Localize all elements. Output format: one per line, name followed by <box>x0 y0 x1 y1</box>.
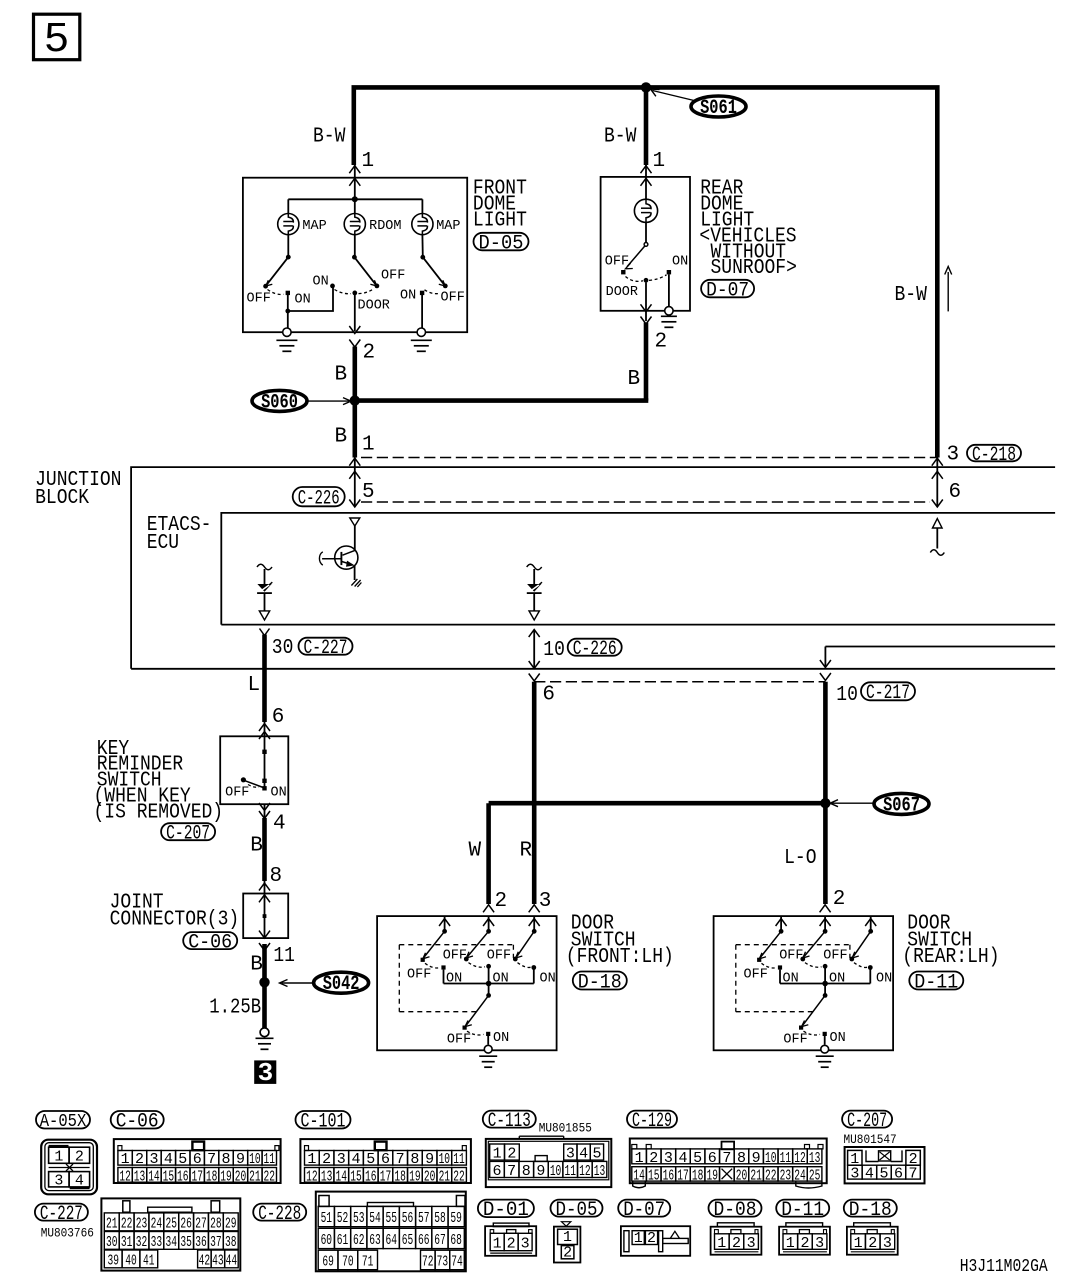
svg-text:22: 22 <box>121 1215 133 1232</box>
connector label C-217 <box>861 682 915 700</box>
svg-text:18: 18 <box>692 1167 704 1184</box>
svg-text:C-207: C-207 <box>847 1110 887 1133</box>
svg-text:21: 21 <box>106 1215 118 1232</box>
svg-text:51: 51 <box>321 1210 333 1227</box>
svg-text:W: W <box>469 839 482 862</box>
svg-text:3: 3 <box>883 1235 892 1252</box>
pin1 arrows <box>349 458 360 466</box>
svg-text:C-217: C-217 <box>866 682 910 705</box>
svg-text:11: 11 <box>564 1163 576 1180</box>
svg-text:D-18: D-18 <box>849 1199 892 1222</box>
svg-text:(IS REMOVED): (IS REMOVED) <box>94 801 224 824</box>
pin 1 entry arrows rear dome <box>641 166 652 174</box>
svg-text:D-07: D-07 <box>623 1199 665 1222</box>
svg-text:A-05X: A-05X <box>40 1112 87 1132</box>
ETACS input left hollow arrow <box>350 518 360 526</box>
svg-text:2: 2 <box>507 1145 516 1162</box>
svg-text:72: 72 <box>422 1253 434 1270</box>
svg-text:1: 1 <box>786 1235 795 1252</box>
svg-text:1: 1 <box>854 1235 863 1252</box>
svg-text:3: 3 <box>815 1235 824 1252</box>
svg-text:4: 4 <box>579 1145 588 1162</box>
svg-text:ON: ON <box>830 1030 846 1046</box>
splice S061 <box>691 96 746 117</box>
svg-text:OFF: OFF <box>247 291 271 307</box>
key switch contacts <box>264 736 266 789</box>
svg-text:MU803766: MU803766 <box>41 1225 94 1240</box>
svg-text:17: 17 <box>677 1167 689 1184</box>
ground ref 3 black box <box>254 1060 276 1084</box>
switch B D-18 <box>468 931 489 956</box>
svg-text:42: 42 <box>199 1252 211 1269</box>
ground left front dome <box>283 328 291 336</box>
splice S042 <box>314 972 369 993</box>
svg-text:DOOR: DOOR <box>358 298 391 314</box>
pin 2 exit rear dome <box>645 283 647 321</box>
svg-text:70: 70 <box>342 1253 354 1270</box>
connector C-113 <box>486 1139 612 1187</box>
svg-text:9: 9 <box>752 1150 761 1167</box>
svg-text:73: 73 <box>437 1253 449 1270</box>
wire R to front door <box>532 682 537 904</box>
switch contact feed D-18 <box>483 905 494 913</box>
wire ON to ground rear <box>668 274 670 306</box>
svg-text:1: 1 <box>717 1235 726 1252</box>
connector label C-207 <box>842 1111 892 1128</box>
connector label D-18 <box>573 972 627 990</box>
svg-text:C-228: C-228 <box>258 1203 301 1226</box>
wire B rear dome pin2 <box>644 323 649 401</box>
svg-text:MAP: MAP <box>302 218 326 234</box>
svg-text:D-11: D-11 <box>914 971 958 994</box>
svg-text:6: 6 <box>193 1151 202 1168</box>
svg-text:17: 17 <box>191 1168 203 1185</box>
dashed option box D-11 <box>736 945 850 1012</box>
svg-text:1: 1 <box>493 1145 502 1162</box>
svg-text:6: 6 <box>542 684 555 707</box>
svg-text:ON: ON <box>876 970 892 986</box>
svg-text:14: 14 <box>148 1168 160 1185</box>
splice S067 <box>874 793 929 814</box>
svg-text:6: 6 <box>493 1163 502 1180</box>
switch contact feed D-18 <box>529 905 540 913</box>
svg-text:2: 2 <box>868 1235 877 1252</box>
svg-text:12: 12 <box>119 1168 131 1185</box>
svg-text:66: 66 <box>418 1232 430 1249</box>
pin 2 exit front dome <box>354 294 356 331</box>
diode left in ETACS <box>257 564 272 570</box>
svg-text:8: 8 <box>410 1151 419 1168</box>
svg-text:OFF: OFF <box>783 1031 807 1047</box>
svg-text:LIGHT: LIGHT <box>473 210 527 233</box>
pin 1 entry arrows front dome <box>349 166 360 174</box>
connector label C-226 pin5 <box>293 487 345 506</box>
svg-text:12: 12 <box>306 1168 318 1185</box>
svg-text:2: 2 <box>649 1150 658 1167</box>
svg-text:8: 8 <box>270 865 283 888</box>
svg-text:43: 43 <box>212 1252 224 1269</box>
svg-text:30: 30 <box>272 637 294 660</box>
svg-text:44: 44 <box>226 1252 238 1269</box>
svg-text:14: 14 <box>336 1168 348 1185</box>
svg-text:6: 6 <box>708 1150 717 1167</box>
svg-text:S042: S042 <box>323 973 360 996</box>
switch middle RDOM front dome <box>352 255 357 260</box>
connector label C-227 pin30 <box>299 638 353 655</box>
lamp RDOM <box>344 214 365 235</box>
connector C-101 <box>300 1139 471 1183</box>
svg-text:68: 68 <box>450 1232 462 1249</box>
ground right front dome <box>417 328 425 336</box>
svg-text:9: 9 <box>425 1151 434 1168</box>
connector D-08 <box>711 1227 762 1255</box>
svg-text:54: 54 <box>369 1210 381 1227</box>
svg-text:12: 12 <box>579 1163 591 1180</box>
svg-text:3: 3 <box>258 1058 274 1088</box>
svg-text:14: 14 <box>633 1167 645 1184</box>
svg-text:10: 10 <box>439 1151 451 1168</box>
svg-text:16: 16 <box>177 1168 189 1185</box>
svg-text:B: B <box>250 835 263 858</box>
svg-text:OFF: OFF <box>744 966 768 982</box>
svg-text:31: 31 <box>121 1234 133 1251</box>
svg-text:4: 4 <box>164 1151 173 1168</box>
svg-text:ECU: ECU <box>147 532 179 555</box>
switch contact feed D-11 <box>865 919 876 927</box>
lamp rear dome <box>634 199 657 222</box>
svg-text:ON: ON <box>400 287 416 303</box>
svg-text:40: 40 <box>125 1252 137 1269</box>
pin 30 arrows <box>260 629 270 636</box>
svg-text:34: 34 <box>166 1234 178 1251</box>
svg-text:29: 29 <box>225 1215 237 1232</box>
connector D-18 bottom <box>847 1227 898 1255</box>
wire B-W rear dome drop <box>644 87 649 165</box>
connector label D-05 <box>474 233 529 251</box>
svg-text:13: 13 <box>809 1150 821 1167</box>
svg-text:23: 23 <box>136 1215 148 1232</box>
svg-text:D-05: D-05 <box>479 232 524 255</box>
svg-text:1: 1 <box>121 1151 130 1168</box>
switch C D-18 <box>517 931 534 956</box>
wire W down <box>486 803 491 904</box>
svg-text:C-129: C-129 <box>632 1110 672 1133</box>
svg-text:6: 6 <box>272 706 285 729</box>
svg-text:1: 1 <box>54 1149 63 1166</box>
svg-text:15: 15 <box>350 1168 362 1185</box>
svg-text:5: 5 <box>879 1166 888 1183</box>
svg-text:2: 2 <box>507 1235 516 1252</box>
switch D D-11 <box>824 984 826 996</box>
svg-text:39: 39 <box>107 1252 119 1269</box>
svg-text:25: 25 <box>809 1167 821 1184</box>
svg-text:13: 13 <box>594 1163 606 1180</box>
connector label C-101 <box>296 1111 351 1129</box>
svg-text:28: 28 <box>210 1215 222 1232</box>
switch D D-18 <box>488 984 490 996</box>
svg-text:L-O: L-O <box>784 847 816 870</box>
connector D-05 <box>562 1222 571 1227</box>
svg-text:2: 2 <box>322 1151 331 1168</box>
wire B key switch <box>262 818 267 881</box>
svg-text:RDOM: RDOM <box>369 218 401 234</box>
svg-text:5: 5 <box>693 1150 702 1167</box>
svg-text:OFF: OFF <box>441 290 465 306</box>
svg-text:OFF: OFF <box>381 268 405 284</box>
svg-text:L: L <box>248 674 261 697</box>
svg-text:7: 7 <box>507 1163 516 1180</box>
svg-text:CONNECTOR(3): CONNECTOR(3) <box>110 908 240 931</box>
svg-text:2: 2 <box>647 1230 656 1247</box>
svg-text:ON: ON <box>271 784 287 800</box>
svg-text:OFF: OFF <box>443 947 467 963</box>
lamp MAP right <box>412 214 433 235</box>
svg-text:65: 65 <box>402 1232 414 1249</box>
svg-text:61: 61 <box>337 1232 349 1249</box>
svg-text:OFF: OFF <box>225 784 249 800</box>
svg-text:C-06: C-06 <box>188 931 232 954</box>
svg-text:36: 36 <box>195 1234 207 1251</box>
connector line C-217 dashed <box>534 681 825 683</box>
svg-text:MU801547: MU801547 <box>844 1132 897 1147</box>
svg-text:25: 25 <box>166 1215 178 1232</box>
svg-text:4: 4 <box>352 1151 361 1168</box>
svg-text:B-W: B-W <box>313 126 346 149</box>
connector C-06 <box>114 1139 281 1183</box>
svg-text:37: 37 <box>210 1234 222 1251</box>
svg-text:74: 74 <box>451 1253 463 1270</box>
connector C-228 grid <box>316 1192 466 1272</box>
connector label C-226 pin10 <box>568 639 622 656</box>
svg-text:1: 1 <box>493 1235 502 1252</box>
switch A D-11 <box>760 931 781 957</box>
svg-text:4: 4 <box>865 1166 874 1183</box>
ground D-18 <box>484 1045 492 1053</box>
svg-text:11: 11 <box>780 1150 792 1167</box>
svg-text:2: 2 <box>732 1235 741 1252</box>
pin 6 arrows key switch <box>259 724 270 732</box>
switch contact feed D-11 <box>820 905 831 913</box>
svg-text:26: 26 <box>180 1215 192 1232</box>
key reminder switch box <box>220 736 288 804</box>
connector label D-11 bottom <box>776 1200 829 1217</box>
node ON middle <box>330 284 335 289</box>
svg-text:32: 32 <box>136 1234 148 1251</box>
svg-text:C-227: C-227 <box>304 637 348 660</box>
node DOOR middle <box>352 291 357 296</box>
svg-text:2: 2 <box>833 888 846 911</box>
junction S060 node <box>350 395 360 405</box>
connector C-207 <box>845 1147 925 1183</box>
connector C-129 <box>630 1139 827 1184</box>
svg-text:SUNROOF>: SUNROOF> <box>711 257 797 280</box>
svg-text:DOOR: DOOR <box>606 284 639 300</box>
svg-text:27: 27 <box>195 1215 207 1232</box>
connector label C-218 <box>967 445 1021 462</box>
svg-text:10: 10 <box>543 639 565 662</box>
svg-text:D-01: D-01 <box>483 1199 529 1222</box>
front dome distribution wire <box>288 198 422 200</box>
svg-text:(FRONT:LH): (FRONT:LH) <box>566 946 674 969</box>
connector D-11 bottom <box>779 1227 830 1255</box>
svg-text:1: 1 <box>307 1151 316 1168</box>
svg-text:6: 6 <box>894 1166 903 1183</box>
splice S060 <box>252 390 307 411</box>
svg-text:8: 8 <box>522 1163 531 1180</box>
svg-text:38: 38 <box>225 1234 237 1251</box>
svg-text:22: 22 <box>264 1168 276 1185</box>
svg-text:10: 10 <box>550 1163 562 1180</box>
connector label D-07 <box>701 280 754 298</box>
svg-text:4: 4 <box>273 813 286 836</box>
ETACS input right hollow arrow <box>933 519 943 529</box>
connector label C-228 <box>253 1204 306 1221</box>
svg-text:1: 1 <box>634 1230 643 1247</box>
connector label D-01 <box>478 1200 534 1218</box>
svg-text:D-08: D-08 <box>714 1199 757 1222</box>
wire left switch to ground <box>287 294 289 332</box>
svg-text:C-218: C-218 <box>972 444 1016 467</box>
svg-text:2: 2 <box>563 1244 572 1261</box>
svg-text:10: 10 <box>836 684 858 707</box>
svg-text:S060: S060 <box>261 391 298 414</box>
transistor ground hatch <box>351 579 361 587</box>
connector label C-227 bottom <box>35 1204 88 1221</box>
svg-text:3: 3 <box>850 1166 859 1183</box>
connector D-01 <box>485 1226 536 1256</box>
node front dome distribution <box>352 196 358 202</box>
svg-text:C-226: C-226 <box>573 638 617 661</box>
switch bus D-11 <box>780 983 870 985</box>
svg-text:3: 3 <box>149 1151 158 1168</box>
svg-text:D-11: D-11 <box>781 1199 824 1222</box>
svg-text:B: B <box>335 364 348 387</box>
svg-text:21: 21 <box>750 1167 762 1184</box>
svg-text:18: 18 <box>206 1168 218 1185</box>
svg-text:2: 2 <box>655 331 668 354</box>
svg-text:4: 4 <box>678 1150 687 1167</box>
dashed option box D-18 <box>399 945 513 1012</box>
transistor in ETACS <box>335 546 358 569</box>
svg-text:3: 3 <box>539 890 552 913</box>
rear dome light box D-07 <box>601 177 690 311</box>
front dome light box D-05 <box>243 178 467 333</box>
svg-text:33: 33 <box>151 1234 163 1251</box>
connector label D-18 bottom <box>844 1200 897 1217</box>
svg-text:OFF: OFF <box>407 966 431 982</box>
svg-text:8: 8 <box>222 1151 231 1168</box>
svg-text:3: 3 <box>747 1235 756 1252</box>
wire lamp right to switch <box>421 235 423 258</box>
svg-text:11: 11 <box>453 1151 465 1168</box>
svg-text:1: 1 <box>362 434 375 457</box>
connector C-227 grid <box>101 1198 240 1270</box>
connector label C-129 <box>627 1111 677 1128</box>
pin 4 arrows key switch <box>264 804 266 818</box>
node left switch <box>285 309 290 314</box>
svg-text:13: 13 <box>134 1168 146 1185</box>
connector label C-06 <box>183 932 237 949</box>
connector label C-06 bottom <box>111 1111 164 1129</box>
pin 10 arrows right <box>529 630 540 638</box>
svg-text:7: 7 <box>909 1166 918 1183</box>
svg-text:67: 67 <box>434 1232 446 1249</box>
svg-text:B: B <box>628 368 641 391</box>
svg-text:2: 2 <box>75 1149 84 1166</box>
svg-text:D-05: D-05 <box>556 1199 598 1222</box>
svg-text:10: 10 <box>765 1150 777 1167</box>
switch B D-11 <box>804 931 825 956</box>
svg-text:20: 20 <box>424 1168 436 1185</box>
svg-text:16: 16 <box>365 1168 377 1185</box>
svg-text:19: 19 <box>409 1168 421 1185</box>
svg-text:16: 16 <box>663 1167 675 1184</box>
svg-text:20: 20 <box>235 1168 247 1185</box>
connector label C-207 <box>161 823 215 840</box>
junction S061 node <box>641 82 651 92</box>
switch rear dome <box>644 243 648 247</box>
svg-text:3: 3 <box>521 1235 530 1252</box>
svg-text:9: 9 <box>536 1163 545 1180</box>
svg-text:58: 58 <box>434 1210 446 1227</box>
svg-text:21: 21 <box>249 1168 261 1185</box>
ground D-11 <box>821 1045 829 1053</box>
svg-text:1: 1 <box>635 1150 644 1167</box>
svg-text:59: 59 <box>450 1210 462 1227</box>
ground rear dome <box>665 307 673 315</box>
svg-text:15: 15 <box>648 1167 660 1184</box>
svg-text:C-207: C-207 <box>166 823 210 846</box>
svg-text:19: 19 <box>706 1167 718 1184</box>
svg-text:S061: S061 <box>700 97 737 120</box>
svg-text:C-113: C-113 <box>488 1110 531 1133</box>
connector label D-11 <box>909 972 963 990</box>
svg-text:1: 1 <box>362 150 375 173</box>
connector label D-07 <box>618 1200 670 1217</box>
svg-text:19: 19 <box>220 1168 232 1185</box>
arrow up right side <box>947 272 949 311</box>
connector line C-226 dashed <box>361 501 930 503</box>
switch contact feed D-18 <box>439 919 450 927</box>
svg-text:3: 3 <box>566 1145 575 1162</box>
wire B horizontal bus <box>355 398 649 403</box>
lamp MAP left <box>278 214 299 235</box>
page number 5 box <box>34 14 80 60</box>
svg-text:1.25B: 1.25B <box>209 997 261 1020</box>
switch right MAP front dome <box>420 255 425 260</box>
svg-text:B: B <box>335 426 348 449</box>
svg-text:17: 17 <box>380 1168 392 1185</box>
svg-text:69: 69 <box>322 1253 334 1270</box>
svg-text:10: 10 <box>249 1151 261 1168</box>
wire 1.25B ground <box>262 944 267 1028</box>
pin 8 arrows joint connector <box>259 883 270 891</box>
svg-text:2: 2 <box>495 890 508 913</box>
svg-text:C-226: C-226 <box>298 487 340 510</box>
svg-text:13: 13 <box>321 1168 333 1185</box>
svg-text:MAP: MAP <box>436 218 460 234</box>
svg-text:6: 6 <box>949 481 962 504</box>
svg-text:C-101: C-101 <box>301 1111 346 1134</box>
svg-text:2: 2 <box>363 342 376 365</box>
switch contact feed D-11 <box>776 919 787 927</box>
node DOOR rear <box>644 278 649 283</box>
wire right switch to ground <box>421 294 423 332</box>
wire W horizontal <box>489 801 826 806</box>
svg-text:3: 3 <box>664 1150 673 1167</box>
diode right in ETACS <box>527 564 542 570</box>
door switch box D-11 <box>714 916 894 1050</box>
